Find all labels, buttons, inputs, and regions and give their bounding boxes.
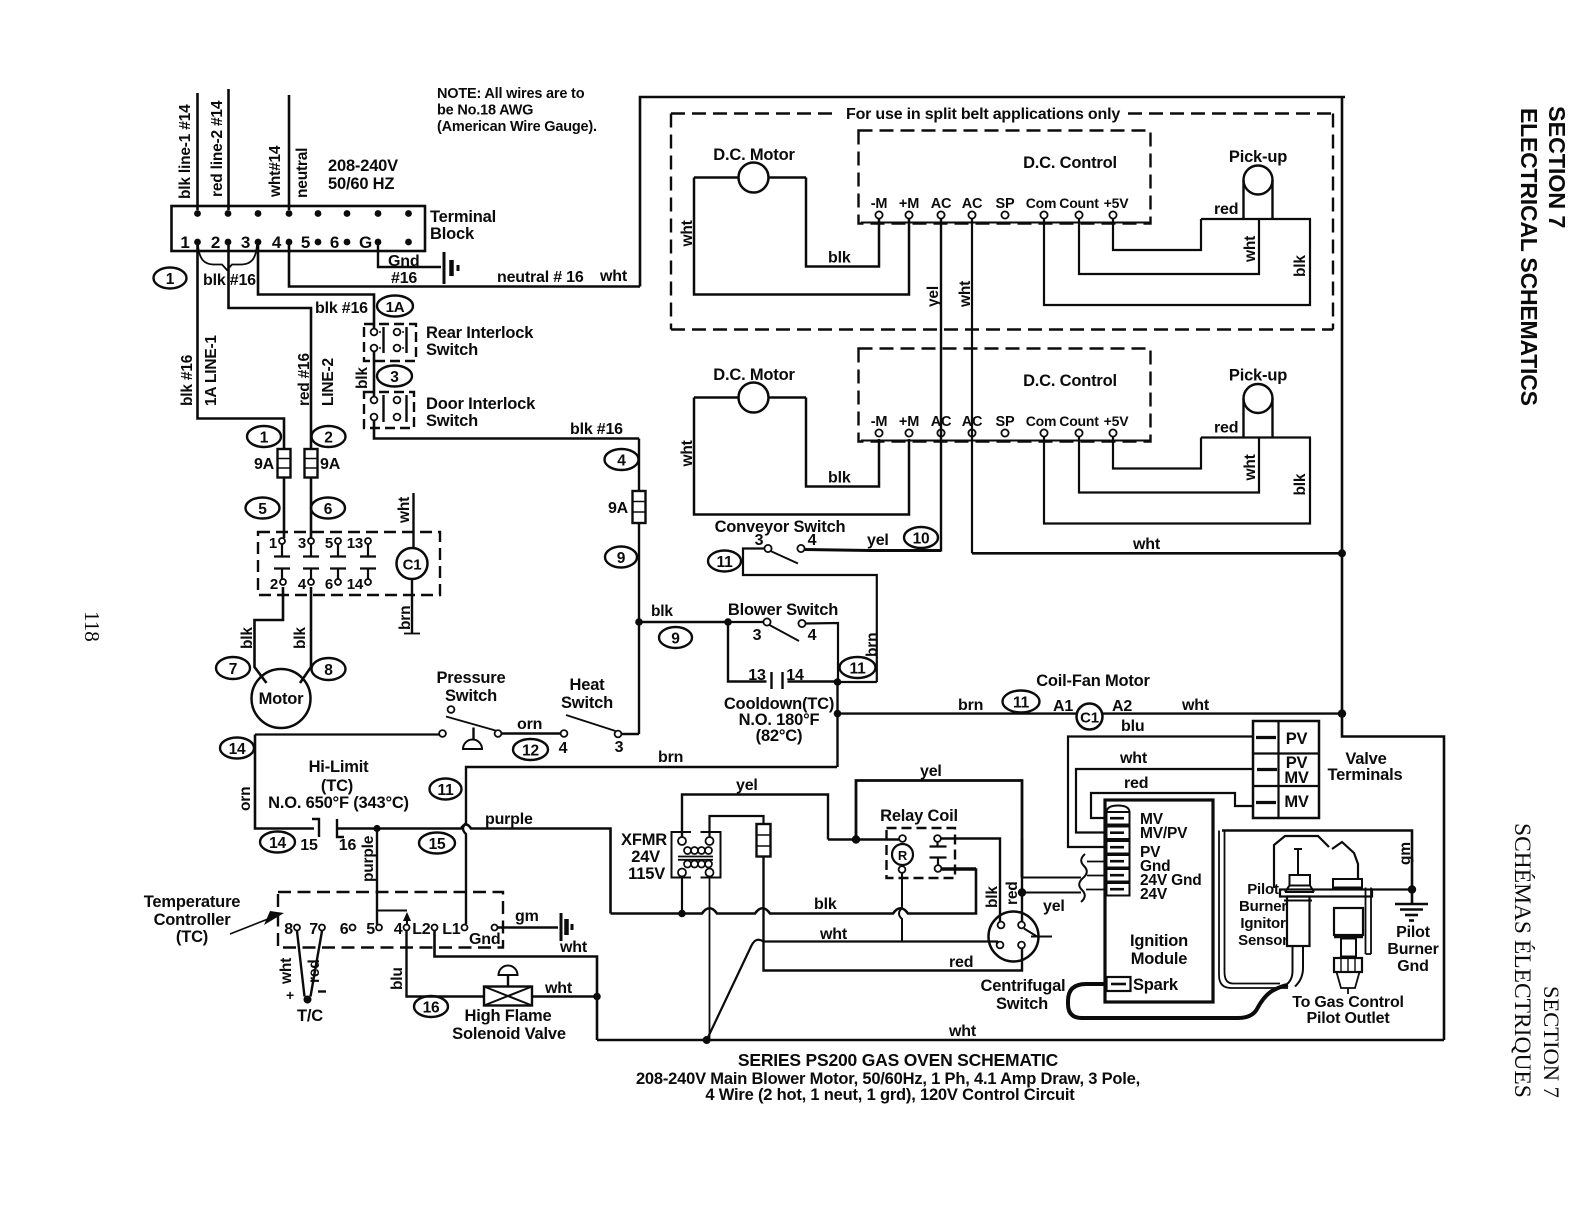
svg-text:blk #16: blk #16 bbox=[570, 421, 623, 438]
svg-text:neutral: neutral bbox=[294, 148, 311, 198]
label Terminal Block bbox=[430, 208, 496, 243]
circled ref 11 (blower) bbox=[840, 657, 876, 678]
wire wht motor lead (lower) bbox=[694, 398, 909, 515]
svg-text:Centrifugal: Centrifugal bbox=[981, 977, 1066, 995]
svg-text:208-240V: 208-240V bbox=[328, 157, 398, 175]
svg-text:6: 6 bbox=[330, 233, 339, 252]
wire relay contact to blk riser bbox=[942, 839, 1001, 923]
wire blk to blower switch bbox=[639, 621, 728, 624]
svg-text:yel: yel bbox=[867, 532, 889, 549]
svg-text:5: 5 bbox=[258, 501, 267, 518]
svg-text:Controller: Controller bbox=[154, 911, 232, 929]
svg-text:2: 2 bbox=[324, 430, 332, 447]
svg-text:8: 8 bbox=[284, 921, 293, 938]
svg-text:Blower Switch: Blower Switch bbox=[728, 601, 838, 619]
svg-text:(American Wire Gauge).: (American Wire Gauge). bbox=[437, 119, 597, 135]
svg-text:High Flame: High Flame bbox=[465, 1007, 552, 1025]
svg-text:MV: MV bbox=[1284, 769, 1309, 787]
svg-text:Pilot Outlet: Pilot Outlet bbox=[1307, 1010, 1391, 1027]
brace joining terminals 1-3 (blk #16) bbox=[198, 245, 257, 270]
svg-text:blk line-1 #14: blk line-1 #14 bbox=[177, 104, 194, 199]
wire wht valve PV/MV to module bbox=[1076, 769, 1253, 833]
wire red valve MV to module bbox=[1091, 793, 1253, 818]
svg-text:4 Wire (2 hot, 1 neut, 1 grd),: 4 Wire (2 hot, 1 neut, 1 grd), 120V Cont… bbox=[705, 1086, 1075, 1104]
svg-text:wht: wht bbox=[278, 958, 295, 985]
junction purple drop bbox=[373, 825, 380, 832]
svg-text:Count: Count bbox=[1059, 195, 1099, 211]
svg-text:wht: wht bbox=[1242, 454, 1259, 481]
svg-text:Conveyor Switch: Conveyor Switch bbox=[715, 518, 846, 536]
circled ref 11 (brn drop) bbox=[430, 779, 462, 800]
svg-text:AC: AC bbox=[931, 196, 952, 212]
transformer XFMR 24V/115V bbox=[621, 831, 720, 883]
main trunk right side bbox=[1342, 97, 1444, 1040]
wire to ignition module 24V gnd bbox=[1022, 877, 1081, 879]
svg-text:-M: -M bbox=[871, 414, 888, 430]
junction wht/trunk bbox=[1338, 549, 1346, 557]
svg-text:1: 1 bbox=[269, 535, 277, 552]
wire brn node down to brn bus bbox=[836, 714, 838, 767]
wire door interlock to blower fuse (blk #16) bbox=[374, 421, 639, 439]
coil C1 (fan motor) bbox=[1077, 704, 1103, 730]
junction bottom bus bbox=[703, 1036, 711, 1044]
spark terminal bbox=[1107, 976, 1179, 994]
control pins -M +M AC AC SP Com Count +5V (lower) bbox=[871, 413, 1129, 437]
svg-text:L1: L1 bbox=[442, 921, 461, 938]
pressure switch bbox=[439, 706, 501, 749]
svg-text:blk #16: blk #16 bbox=[179, 354, 196, 406]
wire red line-2 #14 into terminal 2 bbox=[227, 89, 230, 210]
svg-text:Terminals: Terminals bbox=[1328, 766, 1403, 784]
wire conveyor common to blower net bbox=[743, 549, 877, 683]
wire red +5V to pick-up (lower) bbox=[1113, 437, 1201, 469]
svg-text:Spark: Spark bbox=[1133, 976, 1179, 994]
wire XFMR secondary right to bottom bus bbox=[709, 877, 711, 1041]
svg-text:red: red bbox=[306, 959, 323, 983]
circled ref 4 (blower fuse) bbox=[605, 449, 639, 470]
svg-text:blk: blk bbox=[828, 250, 851, 267]
svg-text:2: 2 bbox=[211, 233, 220, 252]
svg-text:orn: orn bbox=[237, 787, 254, 811]
svg-text:Motor: Motor bbox=[259, 690, 305, 708]
wire red riser to centrifugal bbox=[1021, 839, 1023, 923]
temperature controller box bbox=[278, 892, 503, 948]
wire contactor 2 to motor (blk) bbox=[255, 587, 284, 683]
svg-text:Coil-Fan Motor: Coil-Fan Motor bbox=[1036, 672, 1150, 690]
svg-text:+5V: +5V bbox=[1104, 413, 1130, 429]
circled ref 9 (blower) bbox=[659, 627, 692, 648]
svg-text:purple: purple bbox=[485, 811, 533, 828]
circled ref 8 bbox=[312, 658, 346, 680]
svg-text:4: 4 bbox=[394, 921, 403, 938]
svg-text:AC: AC bbox=[962, 196, 983, 212]
svg-text:Pick-up: Pick-up bbox=[1229, 367, 1287, 385]
svg-text:(82°C): (82°C) bbox=[756, 727, 803, 745]
wire LINE-1 blk #16 bbox=[198, 245, 285, 449]
svg-text:blk #16: blk #16 bbox=[315, 300, 368, 317]
wire wht Count to pick-up (lower) bbox=[1079, 437, 1259, 493]
module squiggle strain relief bbox=[1079, 854, 1087, 902]
svg-text:(TC): (TC) bbox=[176, 928, 208, 946]
wire orn pressure to heat switch bbox=[502, 732, 561, 734]
svg-text:12: 12 bbox=[522, 743, 539, 760]
wire purple jog to pin 4 with arrow bbox=[377, 911, 411, 925]
pick-up sensor (upper) bbox=[1229, 148, 1287, 219]
svg-text:blk: blk bbox=[984, 886, 1001, 908]
svg-text:Com: Com bbox=[1026, 195, 1057, 211]
svg-text:2: 2 bbox=[270, 576, 278, 593]
label Hi-Limit (TC) N.O. 650F bbox=[268, 758, 409, 812]
circled ref 7 bbox=[216, 657, 250, 679]
svg-text:Sensor: Sensor bbox=[1238, 932, 1288, 949]
high flame solenoid valve bbox=[484, 966, 532, 1006]
wire wht motor lead (upper) bbox=[694, 178, 909, 295]
wire brn bus to controller L1 bbox=[463, 767, 837, 924]
svg-text:11: 11 bbox=[1013, 695, 1030, 712]
svg-text:blk: blk bbox=[828, 470, 851, 487]
wire wht lower control to trunk bbox=[972, 552, 1342, 555]
svg-text:yel: yel bbox=[1043, 898, 1065, 915]
svg-text:6: 6 bbox=[340, 921, 349, 938]
svg-text:9: 9 bbox=[671, 631, 680, 648]
svg-text:Rear Interlock: Rear Interlock bbox=[426, 324, 534, 342]
pilot gas control assembly bbox=[1334, 908, 1363, 994]
svg-text:G: G bbox=[359, 233, 372, 252]
svg-text:neutral # 16: neutral # 16 bbox=[497, 269, 584, 286]
label Temperature Controller (TC) bbox=[144, 893, 241, 946]
pilot ignitor sensor assembly bbox=[1274, 836, 1372, 987]
svg-text:be No.18 AWG: be No.18 AWG bbox=[437, 103, 533, 119]
svg-text:Relay Coil: Relay Coil bbox=[880, 807, 958, 825]
svg-text:blk: blk bbox=[814, 896, 837, 913]
svg-text:D.C. Control: D.C. Control bbox=[1023, 154, 1117, 172]
circled ref 6 bbox=[311, 498, 345, 519]
label High Flame Solenoid Valve bbox=[452, 1007, 566, 1043]
svg-text:Ignition: Ignition bbox=[1130, 932, 1188, 950]
svg-text:blk: blk bbox=[651, 603, 673, 620]
svg-text:brn: brn bbox=[658, 749, 683, 766]
svg-text:LINE-2: LINE-2 bbox=[320, 358, 337, 406]
label neutral # 16 wht bbox=[497, 268, 628, 286]
svg-text:Pressure: Pressure bbox=[436, 669, 505, 687]
svg-text:Gnd: Gnd bbox=[1397, 958, 1428, 975]
svg-text:(TC): (TC) bbox=[321, 777, 353, 795]
wire fuse2 to contactor pin 3 bbox=[310, 478, 313, 539]
svg-text:XFMR: XFMR bbox=[621, 831, 667, 849]
ground symbol (pilot burner gnd) bbox=[1395, 904, 1428, 921]
svg-text:yel: yel bbox=[920, 763, 942, 780]
circled ref 5 bbox=[246, 498, 280, 519]
svg-text:1: 1 bbox=[180, 233, 189, 252]
svg-text:11: 11 bbox=[717, 554, 734, 571]
wire blk #16 from terminal 3 to rear interlock bbox=[258, 245, 374, 328]
wire rear to door interlock bbox=[373, 352, 376, 396]
svg-text:L2: L2 bbox=[412, 921, 431, 938]
svg-text:6: 6 bbox=[325, 576, 333, 593]
wire brn from contactor coil bbox=[404, 579, 420, 634]
wire purple bus from hi-limit 16 bbox=[337, 825, 611, 914]
wire grn junction to sensor plate bbox=[1372, 888, 1412, 890]
svg-text:red: red bbox=[1214, 420, 1238, 437]
svg-text:wht: wht bbox=[396, 497, 413, 524]
wire blk Com to pick-up (upper) bbox=[1044, 219, 1310, 306]
svg-text:3: 3 bbox=[298, 535, 306, 552]
label Pilot Burner Ignitor Sensor bbox=[1238, 881, 1288, 949]
label To Gas Control Pilot Outlet bbox=[1292, 994, 1404, 1027]
svg-text:SECTION 7: SECTION 7 bbox=[1544, 106, 1570, 228]
svg-text:wht: wht bbox=[948, 1023, 977, 1040]
pick-up terminal bar (lower) bbox=[1201, 436, 1311, 438]
svg-text:Gnd: Gnd bbox=[388, 253, 419, 270]
caption series ps200 bbox=[636, 1050, 1140, 1104]
wire relay contact bottom out bbox=[942, 867, 977, 869]
svg-text:118: 118 bbox=[80, 611, 104, 642]
svg-text:gm: gm bbox=[1397, 842, 1414, 865]
wire heat switch to blk riser bbox=[622, 733, 640, 735]
wire grn pilot ground run bbox=[1222, 831, 1412, 904]
label Cooldown (TC) N.O. 180F bbox=[724, 695, 834, 745]
junction brn node bbox=[834, 710, 842, 718]
svg-text:wht: wht bbox=[1181, 697, 1210, 714]
svg-text:blk: blk bbox=[354, 367, 371, 389]
svg-text:Switch: Switch bbox=[996, 995, 1048, 1013]
pick-up terminal bar (upper) bbox=[1201, 218, 1311, 220]
D.C. motor (upper) bbox=[694, 146, 806, 193]
svg-text:blu: blu bbox=[1121, 718, 1144, 735]
svg-text:5: 5 bbox=[325, 535, 333, 552]
terminal block bbox=[172, 206, 426, 252]
svg-text:3: 3 bbox=[753, 627, 762, 644]
label Rear Interlock Switch bbox=[426, 324, 534, 359]
svg-text:PV: PV bbox=[1286, 730, 1308, 748]
circled ref 11 (conveyor) bbox=[708, 551, 741, 572]
svg-text:16: 16 bbox=[423, 1000, 440, 1017]
svg-text:C1: C1 bbox=[403, 557, 422, 574]
fuse F3 9A (blower) bbox=[608, 491, 646, 523]
wire yel junction riser to relay contact bbox=[856, 781, 1022, 878]
blower switch bbox=[728, 601, 838, 682]
label Door Interlock Switch bbox=[426, 395, 536, 430]
main circuit outer frame top/left bbox=[640, 97, 1345, 287]
svg-text:4: 4 bbox=[808, 532, 817, 549]
svg-text:wht: wht bbox=[1119, 750, 1148, 767]
svg-text:+M: +M bbox=[899, 414, 919, 430]
wire purple drop to controller pin 5 bbox=[376, 829, 378, 925]
svg-text:Module: Module bbox=[1131, 950, 1188, 968]
arrow to controller bbox=[230, 911, 284, 934]
svg-text:Switch: Switch bbox=[426, 412, 478, 430]
wire cooldown junction bar bbox=[838, 681, 877, 683]
svg-text:Switch: Switch bbox=[426, 341, 478, 359]
svg-text:3: 3 bbox=[390, 369, 399, 386]
wire motor circuit to pressure switch bbox=[255, 733, 439, 735]
centrifugal switch bbox=[981, 912, 1066, 1014]
junction valve/wht bbox=[593, 993, 601, 1001]
svg-text:Pilot: Pilot bbox=[1396, 924, 1431, 941]
svg-text:Terminal: Terminal bbox=[430, 208, 496, 226]
wire yel riser (AC to conveyor) bbox=[940, 219, 942, 552]
svg-text:D.C. Control: D.C. Control bbox=[1023, 372, 1117, 390]
wire wht riser (AC to AC to wht bus) bbox=[971, 219, 973, 553]
relay contact bbox=[930, 835, 947, 872]
svg-text:Door Interlock: Door Interlock bbox=[426, 395, 536, 413]
svg-text:1A LINE-1: 1A LINE-1 bbox=[203, 335, 220, 406]
circled ref 1A bbox=[377, 296, 413, 317]
contactor C1 assembly bbox=[258, 532, 440, 595]
svg-text:yel: yel bbox=[736, 777, 758, 794]
svg-text:14: 14 bbox=[786, 667, 804, 684]
svg-text:Hi-Limit: Hi-Limit bbox=[309, 758, 370, 776]
circled ref 9 (riser) bbox=[605, 547, 637, 568]
wire drop to brn node bbox=[836, 682, 838, 714]
svg-text:10: 10 bbox=[913, 531, 930, 548]
svg-text:ELECTRICAL SCHEMATICS: ELECTRICAL SCHEMATICS bbox=[1516, 108, 1542, 406]
svg-text:Gnd: Gnd bbox=[469, 931, 500, 948]
wire fuse1 to contactor pin 1 bbox=[283, 478, 286, 539]
svg-text:purple: purple bbox=[360, 835, 377, 882]
wire yel XFMR primary to relay junction bbox=[682, 795, 828, 840]
svg-text:wht: wht bbox=[1132, 536, 1161, 553]
wire wht bottom bus bbox=[597, 1039, 1444, 1042]
thermocouple T/C bbox=[286, 931, 326, 1025]
svg-text:#16: #16 bbox=[391, 270, 417, 287]
wire wht from L2 to bottom bus bbox=[435, 931, 598, 1040]
circled ref 12 bbox=[513, 739, 548, 760]
svg-text:4: 4 bbox=[272, 233, 282, 252]
wire Gnd #16 from terminal G bbox=[378, 245, 441, 267]
wire yel to ignition module 24V bbox=[1022, 892, 1081, 894]
wire blu valve PV to module bbox=[1068, 737, 1253, 848]
rear interlock switch bbox=[364, 324, 416, 361]
fuse F2 9A (line-2) bbox=[305, 449, 341, 478]
svg-text:wht: wht bbox=[559, 939, 588, 956]
svg-text:Com: Com bbox=[1026, 413, 1057, 429]
module pin ladder MV MV/PV PV Gnd 24VGnd 24V bbox=[1107, 806, 1202, 904]
svg-text:wht#14: wht#14 bbox=[267, 145, 284, 198]
circled ref 1 bbox=[154, 268, 187, 289]
fuse F4 (24V circuit) bbox=[757, 824, 771, 857]
svg-text:SP: SP bbox=[996, 196, 1015, 212]
junction grn/plate bbox=[1408, 885, 1416, 893]
svg-text:Count: Count bbox=[1059, 413, 1099, 429]
svg-text:4: 4 bbox=[298, 576, 307, 593]
wire yel conveyor 4 to riser bbox=[805, 550, 941, 551]
heat switch bbox=[561, 715, 622, 737]
relay coil R bbox=[892, 835, 913, 873]
dashed split-belt box bbox=[671, 114, 1333, 330]
wire XFMR secondary left to blk bus bbox=[681, 877, 683, 914]
sensor bracket bbox=[1366, 888, 1372, 955]
circled ref 14 (hi-limit) bbox=[260, 832, 295, 853]
ground symbol (controller gm) bbox=[561, 913, 572, 941]
wire brn to coil-fan C1 bbox=[838, 712, 1077, 714]
junction yel to module bbox=[1018, 888, 1026, 896]
cooldown contact 13/14 bbox=[728, 622, 838, 689]
svg-text:13: 13 bbox=[748, 667, 766, 684]
door interlock switch bbox=[364, 392, 414, 428]
wire Gnd pin to gm ground bbox=[498, 926, 559, 928]
wire blk Com to pick-up (lower) bbox=[1044, 437, 1310, 524]
svg-text:7: 7 bbox=[309, 921, 318, 938]
wire blk bus bbox=[611, 870, 977, 914]
svg-text:Burner: Burner bbox=[1239, 898, 1287, 915]
svg-text:115V: 115V bbox=[628, 865, 665, 883]
svg-text:4: 4 bbox=[559, 740, 568, 757]
valve terminals block bbox=[1253, 721, 1319, 818]
svg-text:Burner: Burner bbox=[1387, 941, 1438, 958]
wire red +5V to pick-up (upper) bbox=[1113, 219, 1201, 251]
svg-text:24V: 24V bbox=[631, 848, 660, 866]
svg-text:9A: 9A bbox=[254, 456, 275, 473]
svg-text:3: 3 bbox=[615, 739, 624, 756]
svg-text:14: 14 bbox=[229, 741, 246, 758]
wire valve to junction bbox=[532, 995, 597, 997]
svg-text:15: 15 bbox=[300, 837, 318, 854]
svg-text:9A: 9A bbox=[608, 500, 629, 517]
svg-text:Solenoid Valve: Solenoid Valve bbox=[452, 1025, 566, 1043]
svg-text:red: red bbox=[949, 954, 973, 971]
svg-text:24V: 24V bbox=[1140, 886, 1168, 903]
svg-text:Heat: Heat bbox=[570, 676, 606, 694]
wire neutral wht#14 into terminal 4 bbox=[288, 95, 291, 210]
label Pilot Burner Gnd bbox=[1387, 924, 1438, 975]
wire blk line-1 #14 into terminal 1 bbox=[196, 93, 199, 210]
svg-text:16: 16 bbox=[339, 837, 357, 854]
wire red fuse to centrifugal switch bbox=[764, 857, 1023, 971]
svg-text:blu: blu bbox=[389, 967, 406, 990]
svg-text:wht: wht bbox=[679, 440, 696, 467]
wire relay R to wht bus (hop) bbox=[899, 873, 902, 942]
wire wht to contactor coil bbox=[412, 493, 414, 548]
svg-text:wht: wht bbox=[1242, 236, 1259, 263]
pick-up sensor (lower) bbox=[1229, 367, 1287, 438]
circled ref 3 bbox=[377, 366, 412, 387]
svg-text:3: 3 bbox=[241, 233, 250, 252]
hi-limit contact 15/16 bbox=[312, 819, 344, 837]
svg-text:A1: A1 bbox=[1053, 698, 1073, 715]
wire XFMR primary right to fuse bbox=[710, 816, 764, 837]
wire grn conduit down to spark cable bbox=[1219, 831, 1288, 989]
D.C. control box (lower) bbox=[859, 349, 1151, 442]
label Valve Terminals bbox=[1328, 750, 1403, 784]
svg-text:9A: 9A bbox=[320, 456, 341, 473]
svg-text:Temperature: Temperature bbox=[144, 893, 241, 911]
svg-text:+5V: +5V bbox=[1104, 195, 1130, 211]
svg-text:7: 7 bbox=[229, 661, 237, 678]
D.C. motor (lower) bbox=[694, 366, 806, 413]
svg-text:Switch: Switch bbox=[445, 687, 497, 705]
junction yel/relay bbox=[852, 835, 860, 843]
svg-text:4: 4 bbox=[617, 453, 626, 470]
svg-text:MV: MV bbox=[1284, 793, 1309, 811]
svg-text:red: red bbox=[1214, 201, 1238, 218]
svg-text:wht: wht bbox=[957, 281, 974, 308]
svg-text:Ignitor: Ignitor bbox=[1240, 915, 1286, 932]
wire contactor 4 to motor (blk) bbox=[300, 587, 311, 683]
svg-text:13: 13 bbox=[347, 535, 363, 552]
relay coil box bbox=[880, 807, 958, 878]
svg-text:blk: blk bbox=[1292, 473, 1309, 495]
circled ref 15 bbox=[419, 833, 455, 854]
svg-text:red: red bbox=[1124, 775, 1148, 792]
svg-text:SECTION 7: SECTION 7 bbox=[1539, 986, 1564, 1098]
svg-text:NOTE: All wires are to: NOTE: All wires are to bbox=[437, 86, 585, 102]
motor M1 (main blower) bbox=[252, 669, 311, 728]
svg-text:14: 14 bbox=[269, 835, 286, 852]
svg-text:4: 4 bbox=[808, 627, 817, 644]
D.C. control box (upper) bbox=[859, 131, 1151, 224]
svg-text:gm: gm bbox=[515, 908, 539, 925]
